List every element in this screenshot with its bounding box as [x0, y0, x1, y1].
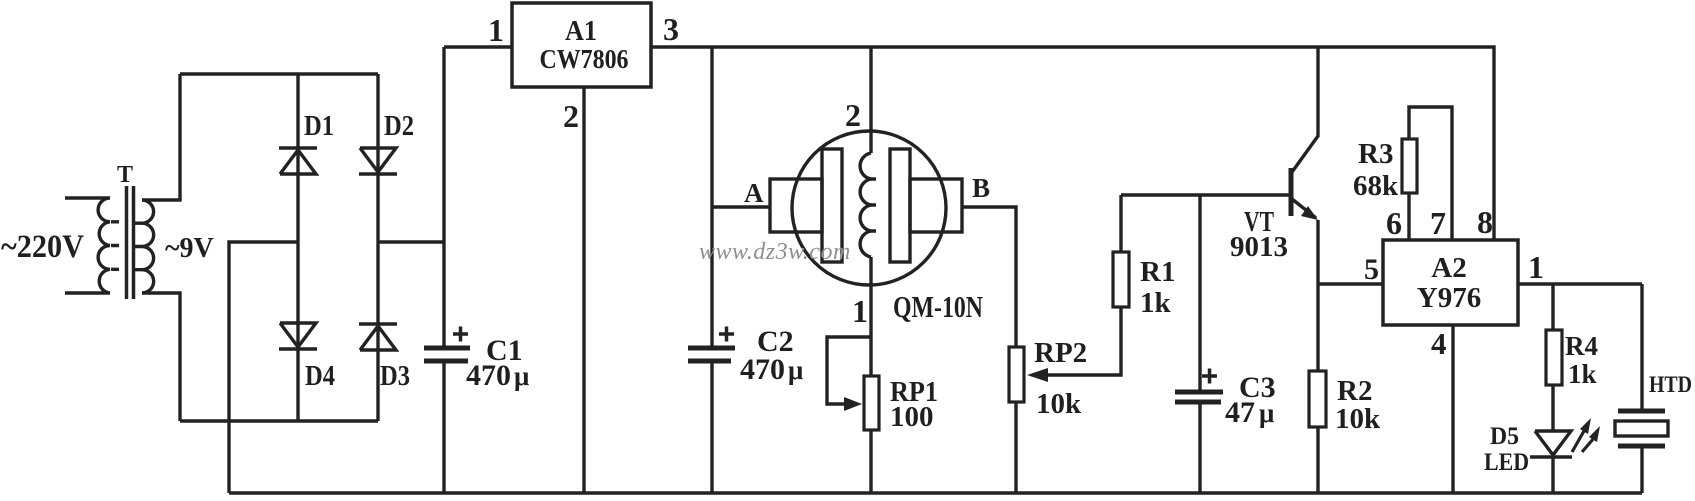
svg-text:LED: LED — [1484, 449, 1529, 476]
wire HTD to ground rail — [1640, 446, 1643, 493]
svg-text:B: B — [972, 173, 990, 203]
wire bridge left branch — [296, 74, 299, 421]
wire R2 to ground rail — [1316, 427, 1319, 493]
svg-text:R4: R4 — [1565, 331, 1598, 361]
svg-text:~9V: ~9V — [165, 233, 214, 264]
RP2 wiper wire from R1 — [1048, 307, 1121, 375]
potentiometer RP2 — [1009, 347, 1024, 402]
wire DC plus output — [378, 240, 444, 243]
svg-text:RP2: RP2 — [1034, 337, 1087, 369]
wire sensor A branch upper — [710, 47, 713, 346]
transformer T primary winding — [65, 198, 110, 293]
wire collector to rail — [1316, 47, 1319, 137]
buzzer HTD — [1615, 411, 1668, 446]
wire C1 to ground rail — [442, 363, 445, 493]
sensor left electrode — [822, 149, 842, 262]
transformer T secondary winding — [142, 200, 154, 293]
wire DC minus output — [229, 242, 298, 493]
svg-text:7: 7 — [1430, 205, 1446, 241]
wire RP1 to ground rail — [869, 430, 872, 493]
svg-text:4: 4 — [1431, 326, 1447, 361]
wire bridge right branch — [376, 74, 379, 421]
transistor VT 9013 — [1291, 136, 1318, 220]
sensor electrode tab B — [910, 179, 962, 232]
LED D5 — [1530, 418, 1600, 457]
svg-text:68k: 68k — [1353, 170, 1399, 202]
sensor electrode tab A — [770, 179, 822, 232]
svg-text:A1: A1 — [565, 15, 597, 47]
wire R1 top — [1119, 195, 1122, 252]
capacitor C3 — [1175, 392, 1223, 402]
svg-text:1k: 1k — [1568, 359, 1597, 389]
wire base net — [1121, 193, 1291, 196]
svg-text:A2: A2 — [1431, 252, 1466, 284]
diode D2 — [359, 148, 397, 174]
potentiometer RP1 — [864, 376, 879, 430]
svg-text:A: A — [744, 178, 764, 208]
wire sensor pin 2 — [869, 47, 872, 153]
svg-text:1k: 1k — [1140, 287, 1172, 319]
wire bridge bottom AC rail — [180, 419, 378, 422]
wire secondary top lead to bridge — [142, 74, 180, 200]
wire top supply rail — [651, 47, 1494, 240]
svg-text:1: 1 — [852, 293, 868, 329]
svg-text:R3: R3 — [1358, 138, 1393, 170]
svg-text:Y976: Y976 — [1417, 282, 1481, 314]
wire B lead to RP2 — [962, 207, 1016, 347]
wire ground rail — [229, 491, 1642, 494]
svg-text:5: 5 — [1364, 253, 1379, 286]
wire R3 top loop to pin 7 — [1409, 107, 1452, 240]
svg-text:2: 2 — [845, 97, 861, 133]
plus sign C1 — [453, 327, 468, 342]
svg-text:T: T — [117, 162, 133, 188]
wire C1 branch upper — [442, 47, 445, 346]
resistor R1 — [1113, 252, 1129, 307]
diode D3 — [359, 324, 397, 350]
svg-text:QM-10N: QM-10N — [893, 289, 983, 324]
wire bridge top AC rail — [180, 72, 378, 75]
RP1 wiper wire — [827, 337, 871, 404]
wire A1 pin1 lead — [444, 45, 512, 48]
resistor R4 — [1546, 330, 1562, 385]
sensor heater coil ticks — [870, 179, 876, 231]
svg-text:D1: D1 — [304, 110, 334, 142]
diode D1 — [279, 148, 317, 174]
wire C3 branch upper — [1198, 195, 1201, 390]
svg-text:47μ: 47μ — [1225, 396, 1274, 429]
svg-text:1: 1 — [488, 12, 504, 48]
wire R4 top lead — [1551, 284, 1554, 330]
svg-text:470μ: 470μ — [466, 359, 529, 392]
gas sensor QM-10N envelope — [792, 131, 946, 285]
wire pin 5 — [1318, 282, 1383, 285]
sensor right electrode — [890, 149, 910, 262]
svg-text:CW7806: CW7806 — [540, 44, 629, 74]
plus sign C2 — [719, 327, 734, 342]
svg-text:D4: D4 — [305, 360, 335, 392]
svg-text:D3: D3 — [380, 360, 410, 392]
svg-text:3: 3 — [663, 11, 679, 47]
wire RP2 to ground rail — [1014, 402, 1017, 493]
svg-text:D2: D2 — [384, 110, 414, 142]
wire C3 to ground rail — [1198, 404, 1201, 493]
wire secondary bottom lead to bridge — [142, 293, 180, 421]
sensor heater coil — [860, 153, 871, 257]
svg-text:10k: 10k — [1335, 403, 1381, 435]
svg-text:9013: 9013 — [1230, 231, 1288, 263]
capacitor C1 — [424, 348, 470, 361]
IC A2 Y976 — [1383, 240, 1518, 325]
resistor R3 — [1402, 139, 1417, 193]
svg-text:www.dz3w.com: www.dz3w.com — [699, 239, 851, 265]
resistor R2 — [1309, 371, 1326, 427]
svg-text:100: 100 — [890, 401, 934, 433]
transformer T core — [127, 186, 134, 299]
svg-text:6: 6 — [1386, 205, 1402, 241]
wire emitter down — [1316, 220, 1319, 371]
wire sensor pin 1 to RP1 — [869, 257, 872, 376]
RP1 wiper arrowhead — [844, 397, 862, 411]
wire C2 to ground rail — [710, 363, 713, 493]
wire R4 to LED — [1551, 385, 1554, 431]
plus sign C3 — [1202, 369, 1217, 384]
wire R3 bottom to pin 6 — [1407, 193, 1410, 240]
svg-text:2: 2 — [563, 98, 579, 134]
svg-text:R1: R1 — [1140, 256, 1175, 288]
wire pin 4 to ground rail — [1451, 325, 1454, 493]
svg-text:~220V: ~220V — [1, 229, 84, 265]
svg-text:8: 8 — [1477, 204, 1493, 240]
RP2 wiper arrowhead — [1027, 368, 1048, 382]
wire A lead — [712, 205, 770, 208]
svg-text:470μ: 470μ — [740, 353, 803, 386]
svg-text:10k: 10k — [1036, 388, 1082, 420]
svg-text:1: 1 — [1528, 249, 1544, 285]
diode D4 — [279, 323, 317, 349]
transformer T primary winding ticks — [111, 222, 119, 269]
transformer T secondary winding ticks — [135, 223, 143, 270]
wire A1 pin2 to ground rail — [582, 87, 585, 493]
wire pin 1 net — [1518, 282, 1642, 285]
regulator A1 CW7806 — [512, 3, 651, 87]
svg-text:D5: D5 — [1490, 423, 1519, 450]
capacitor C2 — [688, 348, 735, 361]
wire LED to ground rail — [1551, 457, 1554, 493]
svg-text:HTD: HTD — [1649, 372, 1692, 397]
wire HTD branch — [1640, 284, 1643, 411]
